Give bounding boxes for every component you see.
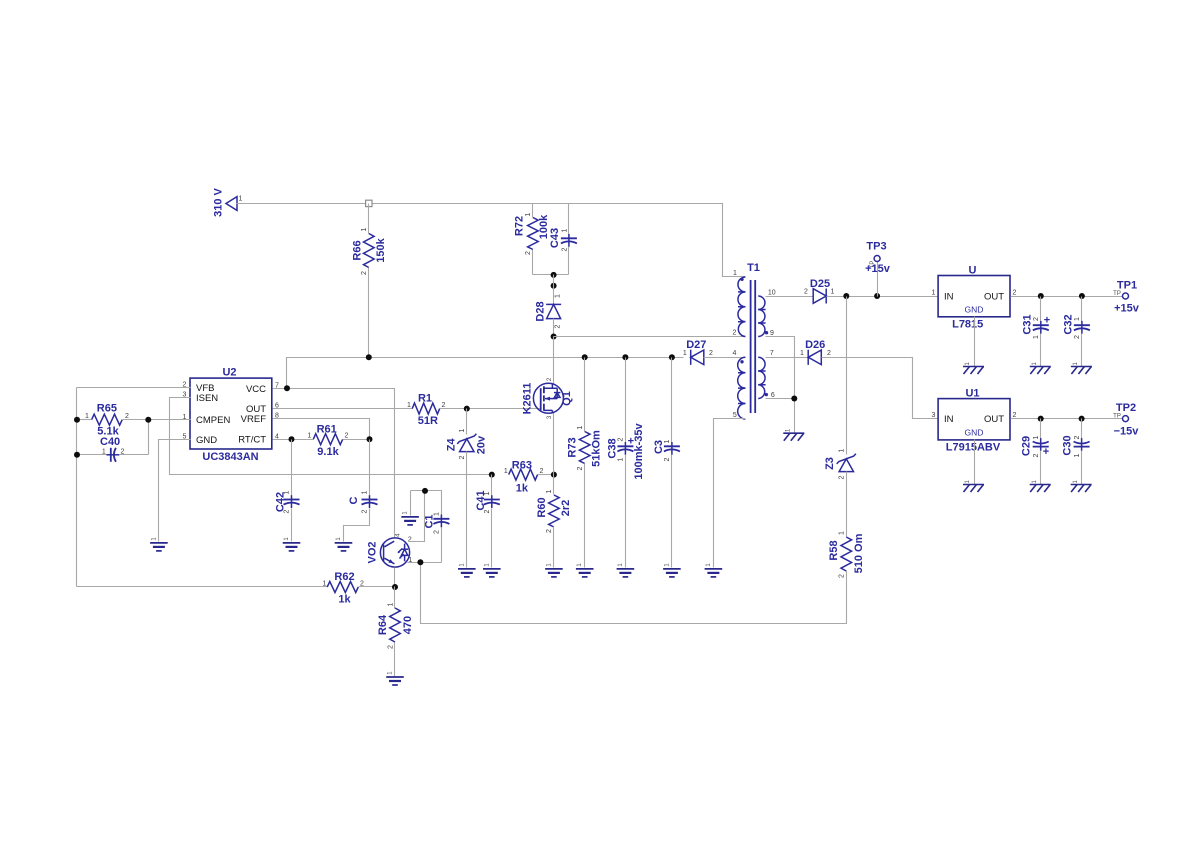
svg-text:Q1: Q1 [561, 391, 573, 406]
resistor R62 1k [323, 571, 365, 606]
svg-text:2: 2 [1013, 290, 1017, 297]
svg-text:VREF: VREF [241, 414, 267, 425]
svg-text:1: 1 [839, 531, 846, 535]
svg-text:1: 1 [800, 350, 804, 357]
wire U1 GND to ground [974, 440, 976, 485]
svg-text:1: 1 [562, 228, 569, 232]
svg-text:1: 1 [362, 490, 369, 494]
wire U2 RT/CT pin4 [273, 439, 314, 441]
ground C42 [283, 537, 301, 551]
wire to D28 [553, 275, 555, 305]
wire C31 to ground [1040, 334, 1042, 367]
svg-text:K2611: K2611 [522, 383, 534, 415]
junction dot feedback [417, 559, 423, 565]
wire Z4 top [466, 409, 468, 435]
wire R62 from VFB node [77, 586, 328, 588]
svg-text:U1: U1 [965, 388, 979, 400]
svg-text:1: 1 [407, 402, 411, 409]
svg-text:R1: R1 [418, 393, 432, 405]
wire Q1 source down [553, 413, 555, 475]
wire R58 feedback to VO2 [421, 563, 847, 624]
svg-text:1k: 1k [338, 594, 351, 606]
svg-text:1: 1 [284, 490, 291, 494]
svg-text:TP2: TP2 [1116, 402, 1136, 414]
wire U2 VREF pin8 [273, 419, 370, 440]
svg-text:1: 1 [459, 428, 466, 432]
wire top rail from 310V to T1 pin1 [237, 204, 746, 277]
junction dot D28/T1pin2 [551, 334, 557, 340]
svg-text:TP: TP [870, 261, 876, 269]
ground C [335, 537, 353, 551]
IC U2 UC3843AN [183, 367, 280, 464]
svg-text:L7815: L7815 [952, 319, 983, 331]
wire Z4 bottom to ground [466, 452, 468, 568]
svg-text:L7915ABV: L7915ABV [946, 442, 1001, 454]
svg-text:R66: R66 [351, 240, 363, 260]
svg-text:C31: C31 [1022, 314, 1034, 334]
svg-text:U2: U2 [222, 367, 236, 379]
wire C32 to ground [1081, 334, 1083, 367]
junction dot ISEN/C41/R63 [489, 472, 495, 478]
junction dot R62/VO2/R64 [392, 584, 398, 590]
diode D26 [800, 339, 831, 365]
svg-text:2: 2 [525, 251, 532, 255]
svg-text:1: 1 [839, 448, 846, 452]
resistor R63 1k [504, 460, 544, 495]
svg-text:2: 2 [284, 509, 291, 513]
svg-text:2: 2 [577, 466, 584, 470]
wire C31 top [1040, 297, 1042, 322]
chassis ground U [963, 361, 984, 374]
svg-text:C43: C43 [549, 228, 561, 248]
svg-text:7: 7 [770, 350, 774, 357]
junction dot TP3 branch [874, 293, 880, 299]
svg-text:470: 470 [402, 616, 414, 634]
wire C29 top [1040, 419, 1042, 439]
svg-text:C32: C32 [1063, 314, 1075, 334]
secondary winding pins 7-6 [758, 357, 765, 398]
chassis ground C31 [1030, 361, 1051, 374]
resistor R64 470 [377, 602, 414, 649]
wire Z3 to R58 [846, 472, 848, 537]
svg-text:2: 2 [459, 455, 466, 459]
wire C43 top [568, 204, 570, 235]
svg-text:C38: C38 [607, 438, 619, 458]
VCC rail wire [287, 358, 684, 389]
svg-text:R64: R64 [377, 614, 389, 635]
svg-text:5: 5 [733, 412, 737, 419]
wire to T1 pin 2 [554, 336, 746, 338]
svg-text:2: 2 [562, 247, 569, 251]
svg-text:OUT: OUT [984, 292, 1004, 303]
wire Z3 top [846, 297, 848, 455]
wire VO2 pin2 to C1 top bar [409, 491, 425, 542]
svg-text:C3: C3 [653, 440, 665, 454]
svg-text:3: 3 [932, 412, 936, 419]
ground C41 [483, 563, 501, 577]
ground Z4 [458, 563, 476, 577]
wire R62 pin2 to node [359, 586, 395, 588]
optocoupler VO2 [367, 533, 413, 567]
wire U2 OUT pin6 [273, 408, 413, 410]
svg-text:R62: R62 [334, 571, 354, 583]
junction dot R1/Z4 [464, 406, 470, 412]
resistor R65 5.1k [85, 403, 129, 438]
svg-text:D27: D27 [686, 339, 706, 351]
chassis ground C29 [1030, 479, 1051, 492]
capacitor C42 [274, 490, 299, 513]
resistor R58 510 Om [828, 531, 865, 578]
svg-text:1: 1 [434, 512, 441, 516]
svg-text:TP: TP [1113, 414, 1121, 420]
junction dot R73/rail [582, 354, 588, 360]
wire U2 GND pin5 [159, 440, 191, 542]
junction dot R66/rail [366, 354, 372, 360]
svg-text:2: 2 [345, 433, 349, 440]
testpoint TP1 [1113, 280, 1140, 315]
wire C to ground (jog left) [344, 509, 370, 542]
wire C38 to ground [625, 455, 627, 568]
wire C42 to ground [291, 509, 293, 542]
wire R72 top [532, 204, 534, 218]
resistor R72 100k [514, 212, 550, 255]
wire C1 bottom [441, 528, 443, 563]
svg-text:TP1: TP1 [1117, 280, 1137, 292]
svg-text:T1: T1 [747, 262, 760, 274]
junction dot pin6 [791, 396, 797, 402]
wire C41 to ground [491, 509, 493, 568]
svg-text:1: 1 [831, 289, 835, 296]
node marker on top rail [366, 200, 372, 206]
svg-text:GND: GND [965, 428, 984, 438]
transistor Q1 K2611 MOSFET [522, 377, 574, 419]
svg-text:TP: TP [1113, 291, 1121, 297]
svg-text:2: 2 [839, 574, 846, 578]
svg-text:1: 1 [1033, 335, 1040, 339]
svg-text:C29: C29 [1021, 436, 1033, 456]
svg-text:C40: C40 [100, 436, 120, 448]
capacitor C30 [1062, 435, 1090, 457]
svg-text:2: 2 [554, 324, 561, 328]
wire R66 top [368, 204, 370, 234]
junction dot source/R63/R60 [551, 472, 557, 478]
svg-text:310 V: 310 V [213, 187, 225, 216]
svg-text:2r2: 2r2 [560, 500, 572, 517]
svg-text:Z4: Z4 [446, 438, 458, 452]
junction dot VFB/R65 [74, 417, 80, 423]
svg-text:R72: R72 [514, 216, 526, 236]
aux winding pins 4-5 [738, 357, 746, 419]
wire VO2 pin1 to C1 bottom [408, 562, 442, 564]
svg-text:100mk-35v: 100mk-35v [633, 422, 645, 479]
resistor R66 150k [351, 227, 387, 275]
diode D28 [535, 294, 562, 329]
wire U2 VFB pin2 [77, 387, 191, 389]
wire VO2 collector (from VCC) already drawn; emitter down [394, 568, 396, 587]
svg-text:2: 2 [1074, 435, 1081, 439]
svg-text:51kOm: 51kOm [590, 430, 602, 467]
svg-text:1: 1 [618, 457, 625, 461]
ground near VO2 [401, 511, 419, 525]
ground U2 pin5 [150, 537, 168, 551]
svg-text:100k: 100k [538, 214, 550, 239]
svg-text:R63: R63 [512, 460, 532, 472]
svg-text:1: 1 [484, 491, 491, 495]
svg-text:1: 1 [525, 212, 532, 216]
junction dot VFB/C40 [74, 452, 80, 458]
svg-text:R73: R73 [567, 437, 579, 457]
ground R64 [386, 671, 404, 685]
wire R60 to ground [553, 527, 555, 568]
svg-text:VCC: VCC [246, 384, 266, 395]
wire T1 pin6 [766, 398, 795, 400]
ground C38 [617, 563, 635, 577]
svg-text:2: 2 [664, 457, 671, 461]
diode D25 [804, 278, 835, 303]
svg-text:OUT: OUT [984, 414, 1004, 425]
wire to R60 [553, 475, 555, 495]
junction dot VCC [284, 385, 290, 391]
svg-text:VO2: VO2 [367, 541, 379, 563]
svg-text:2: 2 [387, 645, 394, 649]
svg-text:CMPEN: CMPEN [196, 415, 230, 426]
junction dot R61/VREF/C [367, 436, 373, 442]
svg-text:IN: IN [944, 292, 954, 303]
svg-text:1: 1 [664, 439, 671, 443]
wire D25 pin1 to U IN [827, 296, 939, 298]
junction dot C38/rail [622, 354, 628, 360]
ground C3 [663, 563, 681, 577]
wire U2 CMPEN pin1 [149, 419, 191, 421]
svg-text:R58: R58 [828, 540, 840, 560]
wire U GND to ground [974, 317, 976, 367]
wire R61 pin2 [343, 439, 370, 441]
svg-text:2: 2 [804, 289, 808, 296]
wire VFB node vertical [76, 388, 78, 587]
chassis ground T1 secondary [783, 428, 804, 441]
C1 top bar [411, 491, 442, 515]
wire C29 to ground [1040, 451, 1042, 485]
wire D28 to junction [553, 319, 555, 337]
wire R63 pin2 to source node [538, 474, 554, 476]
wire R65 pin2 [123, 420, 149, 455]
wire C30 to ground [1081, 451, 1083, 485]
wire C32 top [1081, 297, 1083, 322]
svg-text:2: 2 [121, 448, 125, 455]
wire drain Q1 [553, 337, 555, 384]
svg-text:D28: D28 [535, 301, 547, 321]
svg-text:C: C [348, 496, 360, 504]
ground T1 pin5 [705, 563, 723, 577]
svg-text:1: 1 [1033, 435, 1040, 439]
svg-text:D26: D26 [805, 339, 825, 351]
svg-text:1: 1 [102, 448, 106, 455]
svg-text:2: 2 [1033, 453, 1040, 457]
svg-text:4: 4 [733, 350, 737, 357]
wire R64 top [394, 587, 396, 609]
wire C41 top [491, 475, 493, 496]
wire C3 to ground [671, 455, 673, 568]
capacitor C1 [423, 512, 449, 534]
junction dot Z3 branch [843, 293, 849, 299]
svg-text:1: 1 [1074, 317, 1081, 321]
wire T1 pin7 to D26 [766, 357, 809, 359]
IC U L7815 [932, 265, 1017, 331]
junction dot C1 bar [422, 488, 428, 494]
svg-text:2: 2 [434, 530, 441, 534]
svg-text:1: 1 [504, 468, 508, 475]
capacitor C [348, 490, 378, 513]
svg-text:150k: 150k [375, 237, 387, 262]
svg-text:1: 1 [577, 425, 584, 429]
wire T1 pin10 to D25 [766, 296, 814, 298]
transformer T1 [733, 262, 776, 419]
chassis ground U1 [963, 479, 984, 492]
capacitor C41 [475, 490, 500, 513]
svg-text:R65: R65 [97, 403, 117, 415]
svg-text:1: 1 [733, 270, 737, 277]
svg-text:9.1k: 9.1k [317, 446, 339, 458]
zener Z3 [824, 448, 856, 479]
wire U2 VCC pin7 [273, 389, 395, 539]
svg-text:D25: D25 [810, 278, 830, 290]
capacitor C38 100mk-35v polarized [607, 422, 646, 479]
testpoint TP3 [865, 241, 891, 297]
svg-text:2: 2 [709, 350, 713, 357]
ground R60 [545, 563, 563, 577]
svg-text:GND: GND [965, 305, 984, 315]
wire T1 pin9 [766, 337, 795, 433]
junction dot C3/rail [669, 354, 675, 360]
resistor R61 9.1k [308, 424, 349, 459]
wire R73 top [584, 358, 586, 432]
secondary winding pins 10-9 [758, 296, 765, 337]
junction dot C29 [1038, 416, 1044, 422]
wire R72 bottom [532, 250, 534, 275]
svg-text:1: 1 [683, 350, 687, 357]
wire R1 pin2 to gate [440, 408, 541, 410]
svg-text:2: 2 [484, 509, 491, 513]
wire U1 OUT to TP2 [1011, 418, 1123, 420]
wire R64 to ground [394, 643, 396, 677]
svg-text:20v: 20v [476, 435, 488, 454]
junction dot RT/CT-C42 [289, 436, 295, 442]
diode D27 [683, 339, 713, 365]
svg-text:1: 1 [387, 602, 394, 606]
wire R66 bottom to VCC rail [368, 268, 370, 358]
wire U2 ISEN pin3 [170, 398, 492, 475]
svg-text:UC3843AN: UC3843AN [202, 451, 258, 463]
svg-text:1: 1 [361, 227, 368, 231]
junction dot R65.2/CMPEN [145, 417, 151, 423]
resistor R73 51kOm [567, 425, 603, 470]
svg-text:−15v: −15v [1114, 426, 1140, 438]
svg-text:U: U [969, 265, 977, 277]
wire D27 pin2 to T1 pin4 [704, 357, 746, 359]
wire bar to small ground [410, 491, 412, 516]
svg-text:510 Om: 510 Om [853, 533, 865, 573]
svg-text:+15v: +15v [865, 263, 891, 275]
zener Z4 20v [446, 428, 488, 459]
svg-text:1k: 1k [516, 483, 529, 495]
primary winding pins 1-2 [738, 277, 745, 337]
svg-text:R61: R61 [317, 424, 337, 436]
svg-text:1: 1 [546, 489, 553, 493]
junction dot C31 [1038, 293, 1044, 299]
wire C vertical [369, 440, 371, 496]
svg-text:6: 6 [771, 392, 775, 399]
wire C42 vertical [291, 440, 293, 496]
svg-text:2: 2 [1033, 317, 1040, 321]
wire C43 bottom [568, 247, 570, 275]
wire R65 pin1 [77, 419, 92, 421]
svg-text:1: 1 [323, 581, 327, 588]
svg-text:2: 2 [408, 536, 412, 543]
svg-text:1: 1 [932, 290, 936, 297]
svg-text:2: 2 [362, 509, 369, 513]
capacitor C40 [77, 436, 149, 462]
wire R73 to ground [584, 464, 586, 568]
wire D26 pin2 to U1 IN [822, 358, 939, 419]
chassis ground C32 [1071, 361, 1092, 374]
capacitor C31 polarized [1022, 314, 1051, 339]
svg-text:+: + [1044, 315, 1050, 327]
wire C3 top [671, 358, 673, 443]
chassis ground C30 [1071, 479, 1092, 492]
capacitor C29 polarized [1021, 435, 1050, 458]
svg-text:Z3: Z3 [824, 457, 836, 470]
svg-text:+15v: +15v [1114, 302, 1140, 314]
svg-text:1: 1 [308, 433, 312, 440]
resistor R1 51R [407, 393, 446, 428]
svg-text:10: 10 [768, 289, 776, 296]
capacitor C43 [549, 228, 577, 252]
junction dot [551, 272, 557, 278]
svg-text:1: 1 [554, 294, 561, 298]
capacitor C3 [653, 439, 680, 461]
svg-text:2: 2 [361, 271, 368, 275]
svg-text:+: + [1043, 446, 1049, 458]
wire T1 pin5 to ground [714, 419, 746, 568]
svg-text:1: 1 [239, 196, 243, 203]
svg-text:C30: C30 [1062, 435, 1074, 455]
IC U1 L7915ABV [932, 388, 1017, 454]
core [751, 280, 756, 413]
testpoint TP2 [1113, 402, 1139, 438]
svg-text:51R: 51R [418, 415, 438, 427]
svg-text:GND: GND [196, 435, 217, 446]
wire C38 top [625, 358, 627, 443]
svg-text:2: 2 [733, 329, 737, 336]
junction dot C30 [1079, 416, 1085, 422]
svg-text:ISEN: ISEN [196, 393, 218, 404]
junction dot C32 [1079, 293, 1085, 299]
svg-text:2: 2 [546, 529, 553, 533]
capacitor C32 [1063, 314, 1090, 339]
svg-text:9: 9 [770, 330, 774, 337]
wire U OUT to TP1 [1011, 296, 1123, 298]
svg-text:TP3: TP3 [866, 241, 886, 253]
ground R73 [576, 563, 594, 577]
svg-text:2: 2 [839, 475, 846, 479]
power arrow 310V [213, 187, 243, 216]
svg-text:1: 1 [1074, 453, 1081, 457]
svg-text:RT/CT: RT/CT [238, 435, 266, 446]
svg-text:2: 2 [1074, 335, 1081, 339]
svg-text:2: 2 [618, 437, 625, 441]
wire C30 top [1081, 419, 1083, 439]
svg-text:2: 2 [827, 350, 831, 357]
